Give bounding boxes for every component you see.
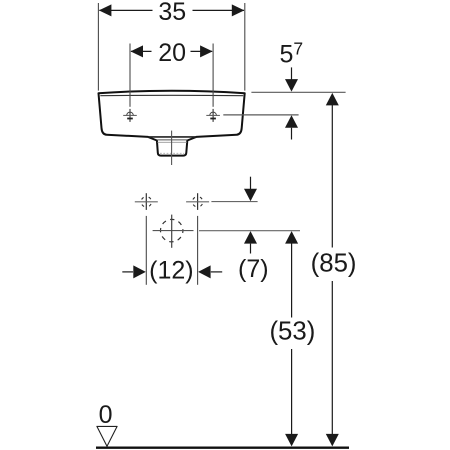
washbasin outline (front view) [99,91,245,156]
svg-text:(85): (85) [311,250,357,278]
svg-text:(53): (53) [269,318,315,346]
tap hole symbol right [206,109,220,122]
dimension (12): left arrow pointing right [122,271,133,273]
dimension (12): right arrow pointing left [198,265,211,278]
reference line: tap hole level [223,114,298,116]
dimension (12): right extension line [197,216,199,285]
fixing hole symbol left (dashed) [135,193,158,210]
dimension 20: left extension line / tap hole centerline [129,44,131,107]
dimension (12): left extension line [145,216,147,285]
drain hole (dashed circle) [161,219,183,241]
datum triangle [97,426,117,446]
dimension (85): vertical line with arrows [326,93,339,106]
dimension 35: right extension line [244,3,246,91]
reference line: basin top level [251,91,345,93]
trap flange lines [157,139,187,141]
dimension 35: left extension line [97,3,99,91]
dimension (7): upper arrow pointing down [250,177,252,190]
trap bottom dashed line [160,152,184,154]
dimension 35: line and arrowheads [99,9,244,11]
drain hole centerlines [153,230,194,232]
floor line [96,447,349,449]
reference line: fixing hole level [211,201,257,203]
svg-text:35: 35 [158,0,186,26]
fixing hole symbol right (dashed) [186,193,209,210]
tap hole symbol left [123,109,137,122]
drain centerline (upper view) [171,131,173,165]
washbasin inner rim line [100,94,243,96]
svg-text:(12): (12) [149,257,193,285]
washbasin bottom line across trap [148,136,196,138]
svg-text:20: 20 [158,39,186,67]
dimension (53): vertical line with arrows [285,231,298,244]
dimension 5^7: lower arrow (points up to tap hole line) [285,115,298,128]
dimension 5^7: upper arrow (points down to basin top) [291,67,293,80]
svg-text:(7): (7) [238,255,269,283]
svg-text:0: 0 [99,401,113,429]
dimension 20: right extension line / tap hole centerline [212,44,214,107]
dimension (7): lower arrow pointing up [244,231,257,244]
reference line: drain level [199,230,300,232]
dimension 20: line and arrowheads [131,50,212,52]
